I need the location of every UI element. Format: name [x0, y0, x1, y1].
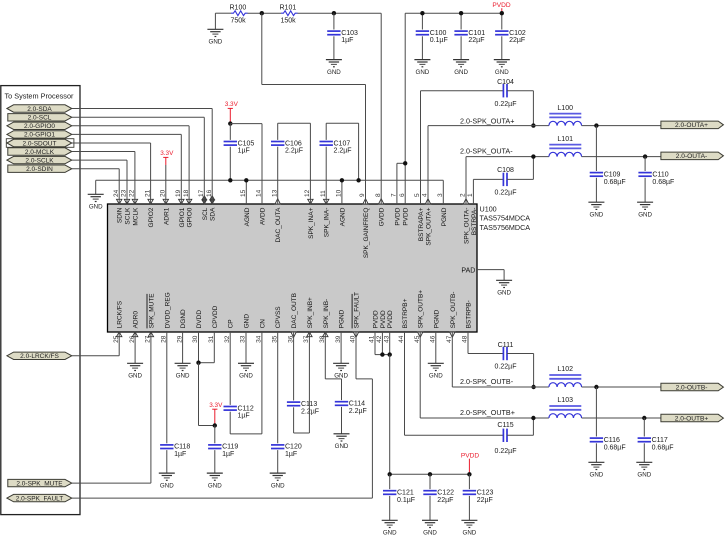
svg-text:SPK_INB+: SPK_INB+	[307, 297, 314, 328]
svg-text:TAS5754MDCA: TAS5754MDCA	[480, 214, 531, 223]
svg-text:C103: C103	[341, 30, 358, 37]
svg-text:2.2µF: 2.2µF	[285, 148, 303, 155]
svg-text:GND: GND	[590, 472, 604, 479]
capacitor C121 0.1µF	[389, 474, 391, 489]
svg-text:PVDD: PVDD	[461, 453, 480, 460]
svg-text:U100: U100	[480, 205, 497, 214]
svg-text:C110: C110	[652, 171, 668, 178]
wire GND to R100	[215, 12, 231, 14]
svg-text:SPK_OUTB-: SPK_OUTB-	[450, 292, 457, 329]
connector tag 2.0-SPK_FAULT	[7, 494, 72, 501]
svg-text:SPK_INA-: SPK_INA-	[324, 208, 331, 238]
wire 2.0-SCLK to pin 23	[72, 159, 127, 161]
svg-text:GND: GND	[463, 530, 477, 536]
svg-text:DVDD: DVDD	[196, 310, 203, 329]
svg-text:0.22µF: 0.22µF	[495, 189, 517, 196]
capacitor C102 22µF	[501, 13, 503, 29]
svg-text:750k: 750k	[231, 18, 247, 25]
capacitor C120 1uF on CPVSS	[277, 332, 279, 443]
ground C110	[637, 201, 653, 203]
svg-text:3.3V: 3.3V	[225, 101, 239, 108]
capacitor C105 1uF	[229, 124, 231, 140]
svg-text:22µF: 22µF	[477, 497, 493, 504]
svg-text:GND: GND	[383, 530, 397, 536]
svg-text:C121: C121	[397, 490, 414, 497]
junction C110 on OUTA-	[643, 154, 647, 158]
svg-text:BSTRPB-: BSTRPB-	[466, 300, 473, 328]
svg-text:2.0-OUTB-: 2.0-OUTB-	[676, 384, 708, 391]
svg-text:0.68µF: 0.68µF	[604, 179, 626, 186]
svg-text:R101: R101	[280, 4, 297, 11]
ground C116	[588, 461, 604, 463]
svg-text:BSTRPA-: BSTRPA-	[471, 208, 478, 236]
ground C101	[453, 59, 469, 61]
ground pin 46	[435, 332, 437, 363]
svg-text:CN: CN	[259, 319, 266, 329]
svg-text:2.0-OUTB+: 2.0-OUTB+	[675, 415, 709, 422]
svg-text:GND: GND	[160, 482, 174, 489]
svg-text:C106: C106	[285, 140, 302, 147]
wire L102 to 2.0-OUTB- tag	[582, 386, 661, 388]
svg-text:PVDD: PVDD	[387, 310, 394, 328]
capacitor C122 22µF	[429, 474, 431, 489]
capacitor C101 22µF	[460, 13, 462, 29]
svg-text:2.0-SPK_FAULT: 2.0-SPK_FAULT	[16, 495, 64, 502]
svg-text:GND: GND	[497, 290, 511, 297]
junction C121 PVDD rail	[388, 472, 392, 476]
svg-text:C109: C109	[604, 171, 621, 178]
capacitor C113 2.2uF DAC_OUTB to SPK_INB+	[293, 332, 295, 401]
junction C123 PVDD rail	[467, 472, 471, 476]
svg-text:0.68µF: 0.68µF	[652, 179, 674, 186]
svg-text:1µF: 1µF	[341, 37, 353, 44]
ground C118	[159, 472, 175, 474]
svg-text:SCLK: SCLK	[125, 207, 132, 225]
svg-text:GND: GND	[239, 373, 253, 380]
wire 2.0-SPK_FAULT to pin 40	[72, 497, 373, 499]
wire PVDD rail down to pins 6 and 7	[404, 13, 406, 204]
svg-text:2.0-GPIO0: 2.0-GPIO0	[24, 123, 55, 130]
ground C109	[588, 201, 604, 203]
connector tag 2.0-OUTA-	[661, 152, 724, 160]
svg-text:2.0-SCLK: 2.0-SCLK	[25, 157, 54, 164]
wire L101 to 2.0-OUTA- tag	[582, 156, 661, 158]
connector tag 2.0-MCLK	[8, 148, 72, 155]
svg-text:PVDD: PVDD	[492, 2, 511, 9]
svg-text:CPVDD: CPVDD	[212, 305, 219, 328]
wire pin 38 SPK_INB- to C114	[324, 332, 326, 379]
ground pin 39	[340, 332, 342, 363]
ground at R100 left	[214, 13, 216, 29]
svg-text:SPK_OUTA+: SPK_OUTA+	[426, 207, 433, 245]
svg-text:AGND: AGND	[244, 207, 251, 226]
svg-text:2.0-GPIO1: 2.0-GPIO1	[24, 132, 55, 139]
ground C117	[636, 461, 652, 463]
wire 2.0-LRCK/FS to pin 25	[72, 355, 119, 357]
junction C104 to SPK_OUTA+ line	[531, 123, 535, 127]
svg-text:2.0-SPK_OUTA-: 2.0-SPK_OUTA-	[460, 147, 513, 156]
svg-text:2.0-SDIN: 2.0-SDIN	[26, 166, 53, 173]
svg-text:SPK_GAINFREQ: SPK_GAINFREQ	[363, 208, 370, 259]
junction C105 AGND rail	[228, 178, 232, 182]
junction PVDD pin7 branch	[403, 161, 407, 165]
capacitor C100 0.1µF	[421, 13, 423, 29]
svg-text:1µF: 1µF	[174, 451, 186, 458]
connector tag 2.0-SDIN	[8, 165, 72, 172]
junction C122 PVDD rail	[428, 472, 432, 476]
junction C107 AGND rail	[356, 178, 360, 182]
wire 2.0-SCL to pin 17	[72, 116, 205, 118]
junction C117 on OUTB+	[642, 416, 646, 420]
svg-text:GND: GND	[454, 69, 468, 76]
svg-text:SDIN: SDIN	[117, 207, 124, 223]
svg-text:GND: GND	[271, 482, 285, 489]
wire AGND rail to pin 15	[245, 180, 247, 204]
svg-text:2.0-SCL: 2.0-SCL	[28, 115, 52, 122]
svg-text:PVDD: PVDD	[380, 310, 387, 328]
junction C102 top	[500, 11, 504, 15]
svg-text:LRCK/FS: LRCK/FS	[117, 300, 124, 328]
svg-text:DAC_OUTB: DAC_OUTB	[291, 293, 298, 328]
ground AGND rail left	[88, 193, 104, 195]
svg-text:L103: L103	[557, 397, 573, 404]
svg-text:C107: C107	[334, 140, 351, 147]
svg-text:1µF: 1µF	[238, 148, 250, 155]
svg-text:C123: C123	[477, 490, 494, 497]
svg-text:2.2µF: 2.2µF	[349, 408, 367, 415]
svg-text:DVDD_REG: DVDD_REG	[164, 292, 171, 328]
svg-text:SPK_OUTA-: SPK_OUTA-	[464, 208, 471, 244]
junction C116 on OUTB-	[594, 385, 598, 389]
svg-text:C102: C102	[509, 30, 526, 37]
svg-text:SPK_MUTE: SPK_MUTE	[148, 293, 155, 329]
svg-text:C108: C108	[497, 167, 514, 174]
svg-text:2.0-SPK_OUTB+: 2.0-SPK_OUTB+	[460, 408, 515, 417]
svg-text:1µF: 1µF	[285, 451, 297, 458]
capacitor C115 0.22uF bootstrap B+	[404, 332, 406, 435]
svg-text:GND: GND	[208, 482, 222, 489]
svg-text:PGND: PGND	[433, 309, 440, 328]
svg-text:CPVSS: CPVSS	[275, 306, 282, 329]
svg-text:150k: 150k	[281, 18, 297, 25]
svg-text:SPK_FAULT: SPK_FAULT	[354, 292, 361, 328]
ground C123	[461, 519, 477, 521]
wire PVDD bottom rail	[390, 473, 470, 475]
svg-text:GND: GND	[209, 39, 223, 46]
svg-text:C122: C122	[437, 490, 454, 497]
svg-text:GND: GND	[429, 373, 443, 380]
svg-text:GND: GND	[638, 211, 652, 218]
svg-text:SDA: SDA	[210, 207, 217, 221]
connector tag 2.0-OUTA+	[661, 121, 724, 129]
svg-text:GND: GND	[335, 443, 349, 450]
junction pin 42 PVDD	[380, 352, 384, 356]
capacitor C111 0.22uF bootstrap B-	[467, 332, 469, 354]
svg-text:C100: C100	[430, 30, 447, 37]
capacitor C107 2.2uF SPK_INA- to AGND	[325, 147, 327, 204]
capacitor C104 0.22uF bootstrap A+	[420, 91, 422, 204]
svg-text:C119: C119	[222, 444, 238, 451]
svg-text:2.0-SDA: 2.0-SDA	[27, 106, 52, 113]
wire SPK_OUTB+ from pin 45	[419, 332, 421, 418]
wire R100 to R101	[248, 12, 282, 14]
wire 2.0-MCLK to pin 22	[72, 151, 135, 153]
junction C108 to SPK_OUTA- line	[531, 154, 535, 158]
svg-text:C104: C104	[497, 79, 514, 86]
svg-text:ADR0: ADR0	[133, 311, 140, 329]
svg-text:2.0-SPK_MUTE: 2.0-SPK_MUTE	[16, 480, 63, 487]
wire 2.0-GPIO1 to pin 19	[72, 133, 182, 135]
wire AGND rail to pin 3 PGND	[442, 180, 444, 204]
svg-text:2.0-SPK_OUTB-: 2.0-SPK_OUTB-	[460, 377, 514, 386]
ground C121	[382, 519, 398, 521]
svg-text:PVDD: PVDD	[373, 310, 380, 328]
svg-text:PVDD: PVDD	[394, 207, 401, 225]
wire analog ground rail	[96, 179, 444, 181]
wire AGND rail to pin 10	[341, 180, 343, 204]
ground C100	[414, 59, 430, 61]
svg-text:22µF: 22µF	[437, 497, 453, 504]
svg-text:ADR1: ADR1	[163, 207, 170, 225]
wire L103 to 2.0-OUTB+ tag	[582, 417, 661, 419]
resistor R100 750k	[231, 11, 248, 16]
junction DVDD/CPVDD	[196, 361, 200, 365]
connector tag 2.0-SPK_MUTE	[8, 479, 72, 486]
capacitor C119 1uF	[214, 426, 216, 444]
To System Processor connector box	[1, 86, 80, 515]
ground C119	[207, 472, 223, 474]
svg-text:0.1µF: 0.1µF	[397, 497, 415, 504]
svg-text:C120: C120	[285, 444, 302, 451]
connector tag 2.0-SDA	[7, 105, 72, 112]
svg-text:0.22µF: 0.22µF	[495, 448, 517, 455]
svg-text:0.22µF: 0.22µF	[495, 101, 517, 108]
junction C109 on OUTA+	[594, 123, 598, 127]
svg-text:PGND: PGND	[441, 207, 448, 226]
svg-text:PVDD: PVDD	[403, 207, 410, 225]
svg-text:AVDD: AVDD	[260, 207, 267, 225]
capacitor C108 0.22uF bootstrap A-	[472, 179, 474, 204]
svg-text:SCL: SCL	[202, 207, 209, 220]
wire C106 to pin 12 SPK_INA+	[278, 122, 311, 124]
svg-text:GND: GND	[244, 314, 251, 329]
wire pin 30 DVDD down	[198, 332, 200, 363]
svg-text:2.0-MCLK: 2.0-MCLK	[25, 149, 55, 156]
svg-text:DGND: DGND	[180, 309, 187, 328]
inductor L100	[549, 113, 581, 115]
svg-text:C101: C101	[468, 30, 485, 37]
junction C101 top	[459, 11, 463, 15]
connector tag 2.0-OUTB+	[661, 414, 724, 422]
svg-text:1µF: 1µF	[238, 413, 250, 420]
wire PVDD rail (top)	[405, 12, 502, 14]
svg-text:R100: R100	[230, 4, 247, 11]
svg-text:22µF: 22µF	[509, 37, 525, 44]
inductor L101	[549, 144, 581, 146]
wire GVDD down to pin 8	[380, 13, 382, 204]
svg-text:GPIO0: GPIO0	[187, 207, 194, 227]
wire 2.0-SDOUT to pin 21	[72, 142, 151, 144]
svg-text:1µF: 1µF	[222, 451, 234, 458]
svg-text:To System Processor: To System Processor	[5, 92, 75, 101]
svg-text:GPIO1: GPIO1	[179, 207, 186, 227]
svg-text:GND: GND	[495, 69, 509, 76]
svg-text:L100: L100	[557, 105, 573, 112]
ground C120	[270, 472, 286, 474]
junction C100 top	[420, 11, 424, 15]
svg-text:GND: GND	[637, 472, 651, 479]
wire SPK_OUTA- from pin 2	[465, 157, 467, 204]
junction C111 to SPK_OUTB- line	[531, 385, 535, 389]
svg-text:DAC_OUTA: DAC_OUTA	[275, 207, 282, 243]
ground C102	[494, 59, 510, 61]
capacitor C109 0.68uF	[595, 126, 597, 171]
wire node A to SPK_GAINFREQ pin 9	[261, 13, 263, 84]
wire C112 to pin 34 CN	[230, 433, 262, 435]
svg-text:L101: L101	[557, 136, 573, 143]
wire L100 to 2.0-OUTA+ tag	[582, 125, 661, 127]
capacitor C117 0.68uF	[643, 418, 645, 437]
svg-text:TAS5756MDCA: TAS5756MDCA	[480, 223, 531, 232]
connector tag 2.0-SCLK	[7, 156, 72, 163]
svg-text:22µF: 22µF	[468, 37, 484, 44]
svg-text:GPIO2: GPIO2	[148, 207, 155, 227]
wire DVDD rail down to 3.3V node	[198, 363, 200, 426]
connector tag 2.0-SCL	[8, 114, 72, 121]
junction 3.3V C105 AVDD	[228, 121, 232, 125]
wire 2.0-SPK_MUTE to pin 27	[72, 482, 151, 484]
svg-text:GND: GND	[423, 530, 437, 536]
capacitor C114 2.2uF SPK_INB- to GND	[341, 379, 343, 400]
capacitor C118 1uF on DVDD_REG	[166, 332, 168, 443]
capacitor C103 1uF	[333, 13, 335, 29]
inductor L103	[549, 405, 581, 407]
ground C103	[326, 59, 342, 61]
svg-text:2.2µF: 2.2µF	[301, 408, 319, 415]
svg-text:GVDD: GVDD	[379, 207, 386, 226]
wire 2.0-SDA to pin 16	[72, 108, 212, 110]
svg-text:SPK_OUTB+: SPK_OUTB+	[418, 290, 425, 329]
svg-text:C116: C116	[604, 437, 620, 444]
wire 2.0-GPIO0 to pin 18	[72, 125, 189, 127]
wire 2.0-SDIN to pin 24	[72, 168, 119, 170]
svg-text:BSTRPB+: BSTRPB+	[402, 298, 409, 328]
connector tag 2.0-SDOUT	[6, 139, 74, 148]
wire PVDD down to bottom rail	[389, 355, 391, 475]
node B junction (C103/GVDD)	[332, 11, 336, 15]
svg-text:GND: GND	[89, 204, 103, 211]
wire SPK_OUTB- from pin 47	[451, 332, 453, 387]
svg-text:0.68µF: 0.68µF	[604, 444, 626, 451]
inductor L102	[549, 374, 581, 376]
capacitor C106 2.2uF DAC_OUTA to SPK_INA+	[277, 147, 279, 204]
svg-text:2.0-SDOUT: 2.0-SDOUT	[23, 140, 57, 147]
junction 3.3V C119	[213, 423, 217, 427]
wire PAD to ground	[477, 269, 504, 271]
svg-text:BSTRAPA+: BSTRAPA+	[418, 207, 425, 241]
capacitor C110 0.68uF	[644, 157, 646, 171]
capacitor C116 0.68uF	[595, 387, 597, 437]
svg-text:2.0-OUTA-: 2.0-OUTA-	[676, 153, 707, 160]
svg-text:GND: GND	[590, 211, 604, 218]
svg-text:L102: L102	[557, 366, 573, 373]
wire R101 to GVDD	[298, 12, 382, 14]
ground C114	[334, 433, 350, 435]
svg-text:C117: C117	[652, 437, 668, 444]
junction pin 43 PVDD	[388, 352, 392, 356]
wire SPK_OUTA+ from pin 4	[427, 126, 429, 204]
svg-text:GND: GND	[327, 69, 341, 76]
svg-text:C115: C115	[497, 422, 513, 429]
node A junction (SPK_GAINFREQ divider tap)	[260, 11, 264, 15]
svg-text:2.0-OUTA+: 2.0-OUTA+	[675, 122, 708, 129]
ground PAD	[496, 279, 512, 281]
wire pins 41-43 PVDD join	[374, 332, 376, 355]
wire C107 to AGND rail	[326, 122, 358, 124]
svg-text:2.2µF: 2.2µF	[334, 148, 352, 155]
ground pin 26	[134, 332, 136, 363]
ground pin 29	[182, 332, 184, 363]
svg-text:GND: GND	[176, 373, 190, 380]
svg-text:SPK_INB-: SPK_INB-	[323, 299, 330, 329]
svg-text:GND: GND	[416, 69, 430, 76]
ground C122	[422, 519, 438, 521]
svg-text:2.0-LRCK/FS: 2.0-LRCK/FS	[20, 353, 59, 360]
capacitor C123 22µF	[468, 474, 470, 489]
svg-text:0.22µF: 0.22µF	[495, 364, 517, 371]
svg-text:C111: C111	[498, 342, 514, 349]
svg-text:AGND: AGND	[339, 207, 346, 226]
svg-text:3.3V: 3.3V	[209, 402, 223, 409]
wire 3.3V to AVDD pin 14	[230, 123, 262, 125]
svg-text:C105: C105	[238, 140, 255, 147]
svg-text:0.68µF: 0.68µF	[652, 444, 674, 451]
connector tag 2.0-LRCK/FS	[7, 352, 72, 359]
capacitor C112 1uF charge pump CP-CN	[229, 332, 231, 405]
svg-text:PGND: PGND	[339, 309, 346, 328]
connector tag 2.0-GPIO1	[7, 131, 72, 138]
junction C115 to SPK_OUTB+ line	[531, 416, 535, 420]
svg-text:C112: C112	[238, 405, 254, 412]
svg-text:SPK_INA+: SPK_INA+	[308, 207, 315, 238]
svg-text:GND: GND	[128, 373, 142, 380]
resistor R101 150k	[281, 11, 298, 16]
connector tag 2.0-OUTB-	[661, 383, 724, 391]
svg-text:0.1µF: 0.1µF	[430, 37, 448, 44]
connector tag 2.0-GPIO0	[7, 122, 72, 129]
svg-text:C114: C114	[349, 401, 365, 408]
op-amp U100 TAS5754MDCA/TAS5756MDCA amplifier IC body	[108, 204, 478, 332]
svg-text:MCLK: MCLK	[132, 207, 139, 226]
wire C113 to pin 37 SPK_INB+	[294, 432, 310, 434]
ground pin 33	[245, 332, 247, 363]
svg-text:PAD: PAD	[461, 268, 475, 275]
wire pin 31 CPVDD jog to DVDD	[213, 332, 215, 363]
svg-text:CP: CP	[228, 319, 235, 328]
svg-text:C118: C118	[174, 444, 190, 451]
svg-text:3.3V: 3.3V	[160, 150, 174, 157]
svg-text:2.0-SPK_OUTA+: 2.0-SPK_OUTA+	[460, 116, 514, 125]
